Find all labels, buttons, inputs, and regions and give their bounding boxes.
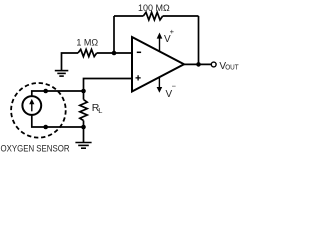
wire: op-amp output to VOUT terminal [184,63,211,65]
terminal: VOUT [211,62,216,67]
wire: sensor top lead [32,91,84,96]
resistor RL [80,100,87,121]
svg-text:L: L [98,106,102,115]
oxygen sensor dashed boundary [11,83,66,138]
wire: RL bottom lead to ground [83,121,85,143]
op-amp non-inverting input plus sign [136,75,141,80]
wire: feedback top right segment [163,15,199,17]
resistor 100 MΩ [143,12,162,20]
junction: RL top node [81,89,86,94]
ground (under RL) [75,143,91,149]
svg-text:OXYGEN SENSOR: OXYGEN SENSOR [1,144,70,154]
junction: sensor bottom terminal [43,125,48,130]
ground (under 1 MΩ) [55,71,69,77]
svg-text:100 MΩ: 100 MΩ [138,3,170,13]
svg-text:V: V [166,89,173,100]
wire: RL top lead [83,91,85,100]
junction: sensor top terminal [43,89,48,94]
resistor 1 MΩ [78,49,97,56]
op-amp U1 [132,37,184,92]
wire: 1 MΩ to op-amp inverting input [97,52,132,54]
junction: inverting input node [112,51,117,56]
svg-text:−: − [172,82,177,91]
svg-text:OUT: OUT [225,62,239,71]
wire: ground to 1 MΩ left lead [62,53,79,70]
V+ supply arrow [157,33,163,52]
wire: non-inverting input from RL top node [84,79,133,92]
wire: feedback right vertical to output node [198,16,200,64]
current source I1 (oxygen sensor) [22,96,41,115]
svg-text:1 MΩ: 1 MΩ [76,37,98,47]
op-amp inverting input minus sign [137,51,141,53]
junction: output node [196,62,201,67]
junction: RL bottom node [81,125,86,130]
wire: feedback top left segment [114,15,143,17]
wire: sensor bottom lead [32,115,84,127]
wire: feedback left vertical [113,16,115,53]
V- supply arrow [157,77,163,93]
svg-text:+: + [170,27,175,36]
